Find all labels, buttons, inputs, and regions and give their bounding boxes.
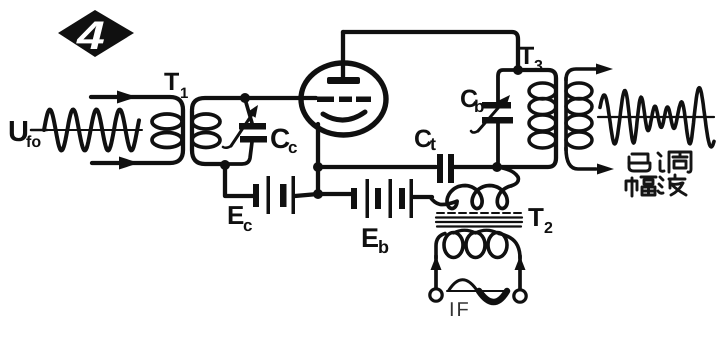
- svg-text:T: T: [519, 42, 534, 70]
- svg-text:t: t: [430, 134, 436, 154]
- svg-text:b: b: [474, 97, 484, 116]
- svg-text:T: T: [164, 68, 179, 96]
- svg-text:3: 3: [534, 58, 543, 75]
- svg-text:c: c: [243, 216, 252, 235]
- svg-text:4: 4: [76, 14, 105, 58]
- svg-text:fo: fo: [26, 134, 41, 151]
- svg-text:c: c: [288, 138, 297, 157]
- svg-text:E: E: [361, 223, 379, 253]
- svg-text:b: b: [378, 237, 389, 257]
- svg-text:T: T: [528, 202, 544, 232]
- svg-text:1: 1: [180, 85, 188, 102]
- svg-text:2: 2: [544, 220, 553, 237]
- svg-text:IF: IF: [449, 299, 471, 321]
- svg-text:E: E: [227, 200, 244, 230]
